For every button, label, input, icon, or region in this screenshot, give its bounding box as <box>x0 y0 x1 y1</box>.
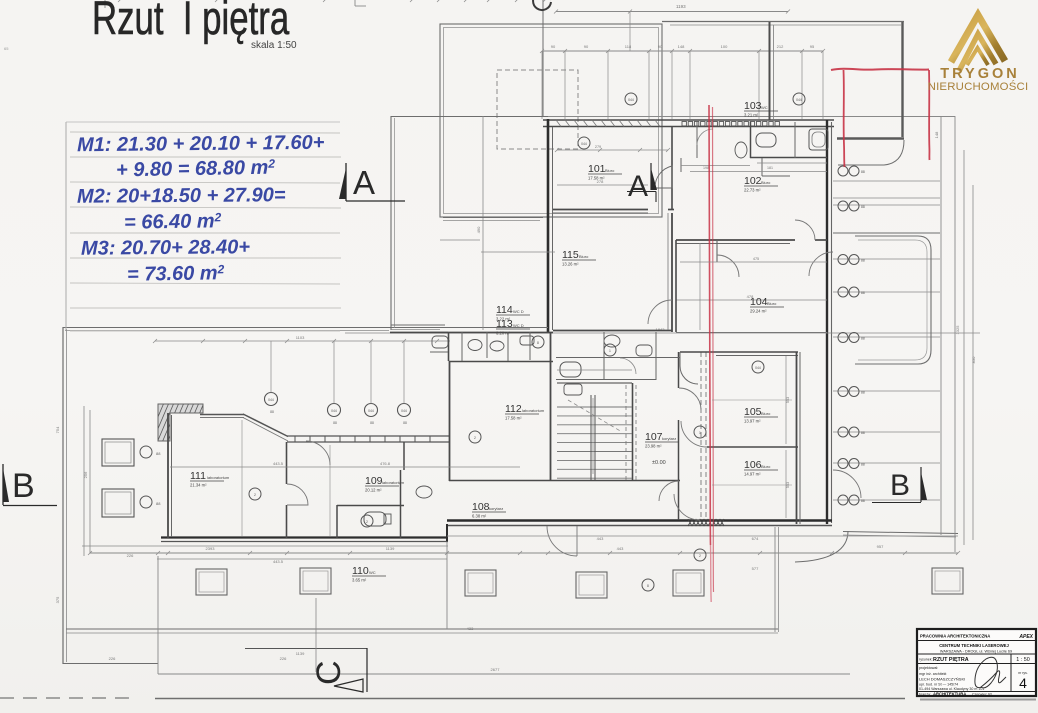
interior dim rows under top wall <box>557 149 668 151</box>
svg-text:rysunek:: rysunek: <box>919 658 933 662</box>
stair dashed cut <box>568 400 622 432</box>
west radiator box 2 <box>102 489 134 517</box>
room111 north wall horizontal <box>200 414 244 416</box>
main east wall <box>826 120 828 524</box>
door arc 101->core <box>655 166 672 188</box>
vertical dim line x483 <box>482 116 484 330</box>
circles beside boxes <box>140 446 152 458</box>
entrance door arc bottom wall <box>547 526 577 556</box>
red vertical division line <box>709 105 711 545</box>
bath zone partitions x462-553 <box>461 332 463 361</box>
horizontal connector y217 <box>443 217 543 219</box>
svg-text:upr. bud. nr St — 145/74: upr. bud. nr St — 145/74 <box>919 683 958 687</box>
svg-text:PRACOWNIA ARCHITEKTONICZNA: PRACOWNIA ARCHITEKTONICZNA <box>920 634 990 639</box>
svg-text:Czerwiec 93: Czerwiec 93 <box>972 693 992 697</box>
terrace top line y117 <box>391 116 548 118</box>
corridor 107 walls <box>678 352 680 388</box>
subtitle skala <box>251 40 297 51</box>
stairwell walls <box>557 382 632 384</box>
rooms 105/106 interior dims <box>785 356 787 444</box>
upper-right terrace east wall <box>901 22 903 137</box>
terrace west wall thin x392 <box>390 116 392 330</box>
outer chevron <box>951 15 1005 62</box>
rooms east wall x797 <box>796 352 798 524</box>
wall 109/110 region <box>403 442 405 470</box>
right boundary verticals <box>940 116 942 535</box>
washbasin 109 <box>416 486 432 498</box>
long dimension line y553 <box>90 552 958 554</box>
lab wing bottom wall <box>161 536 448 538</box>
room 104 interior dim <box>676 299 827 301</box>
svg-text:WARSZAWA - DROGL ul. Wšniej L: WARSZAWA - DROGL ul. Wšniej Lucile 69 <box>940 650 1012 654</box>
svg-text:mgr inż. architekt: mgr inż. architekt <box>919 672 946 676</box>
WC110 fixture <box>364 512 386 526</box>
dim line y333 long <box>345 332 980 334</box>
door arcs corridor <box>679 388 701 410</box>
core west wall x672 upper <box>671 127 673 160</box>
column squares <box>196 569 227 595</box>
svg-text:01-494 Warszawa ul. Klaudyny 3: 01-494 Warszawa ul. Klaudyny 30 m 101 <box>919 687 984 691</box>
upper-left block outline <box>440 24 662 217</box>
corridor window band lab wing <box>287 435 450 437</box>
middle chevron <box>959 34 996 71</box>
stair landing line <box>557 369 632 371</box>
svg-text:projektował:: projektował: <box>919 666 938 670</box>
glass block band in top wall <box>682 122 686 126</box>
west dim line <box>89 410 91 553</box>
wall 105/106 <box>707 446 798 448</box>
red rectangle <box>831 69 929 70</box>
svg-text:APEX: APEX <box>1018 634 1033 640</box>
handwritten M3 line1 <box>81 236 250 260</box>
bath zone sub-lines <box>680 158 682 172</box>
door arc 109 <box>306 441 330 465</box>
svg-text:branża:: branża: <box>919 693 931 697</box>
site boundary top horizontal <box>63 327 390 329</box>
svg-text:ARCHITEKTURA: ARCHITEKTURA <box>933 692 966 697</box>
svg-text:1 : 50: 1 : 50 <box>1016 657 1030 663</box>
room104 interior dims <box>699 243 701 330</box>
handwritten M2 line2 <box>124 210 222 234</box>
east wing circled symbols <box>838 166 848 176</box>
bath fixtures small <box>468 340 482 351</box>
svg-text:4: 4 <box>1019 675 1027 691</box>
inner chevron <box>967 48 988 65</box>
dashed terrace square <box>497 70 578 149</box>
line y116 right extension <box>832 116 955 118</box>
upper-right block divider x770 <box>769 22 771 120</box>
bath 103 walls <box>750 122 752 158</box>
below-wall parallel lines <box>447 535 958 537</box>
circled symbols row lab corridor <box>265 393 278 406</box>
title Rzut I pietra <box>92 0 289 45</box>
bath103 partition detail <box>761 158 763 176</box>
door arc 102->104 <box>795 220 815 240</box>
site boundary bottom horizontals <box>63 663 158 665</box>
stair treads <box>557 406 632 408</box>
svg-text:CENTRUM TECHNIKI LASEROWEJ: CENTRUM TECHNIKI LASEROWEJ <box>939 643 1009 648</box>
dim line y341 <box>155 340 450 342</box>
site boundary verticals mid <box>157 556 159 674</box>
top edge cut marks <box>104 0 106 8</box>
main slab top wall <box>543 116 834 118</box>
corridor diagonal wall <box>243 414 288 437</box>
top connector <box>629 11 631 51</box>
bath103 toilet <box>756 133 776 147</box>
main west wall <box>547 119 550 332</box>
east wing divider lines <box>833 180 940 182</box>
wall between 111 and 109 <box>286 442 288 484</box>
room 101 interior dim <box>557 184 648 186</box>
room105 top wall <box>680 351 798 353</box>
wall 102/104 y240 <box>676 239 795 241</box>
west radiator box 1 <box>102 439 134 466</box>
room 115 inner lines <box>553 330 672 332</box>
door arc 115 <box>648 300 672 324</box>
door arc east wing <box>833 470 861 498</box>
room 109 interior vertical dim <box>241 420 243 536</box>
dashed lines shaft <box>700 352 702 520</box>
main bottom wall <box>447 519 832 522</box>
handwritten M1 line2 <box>116 157 275 183</box>
top dimension chain y51 <box>542 50 823 52</box>
C section line top <box>542 0 544 117</box>
door/wall details near red line <box>676 332 827 334</box>
terrace kerb curve <box>838 140 904 165</box>
handwritten M2 line1 <box>77 184 286 208</box>
interior dims lab wing <box>170 466 520 468</box>
wall above 112 (bath zone) <box>448 332 450 361</box>
stair arrow <box>592 398 594 474</box>
door arcs 105 106 <box>681 421 707 447</box>
upper-right terrace bottom wall <box>837 137 904 140</box>
threshold crosshatch bottom <box>688 519 692 526</box>
door arc room 111 <box>287 484 308 505</box>
balcony rounded outline upper <box>855 236 931 364</box>
wall 104 south segment x676 <box>675 240 677 332</box>
window hatch left segment <box>556 120 561 127</box>
lab wing west wall <box>167 413 169 538</box>
core west wall x672 <box>671 160 673 209</box>
bath103 tub <box>809 129 828 150</box>
under titleblock smudge <box>920 699 1036 701</box>
left mid dim y240-252 <box>440 239 480 241</box>
upper-right block top edge <box>662 21 904 23</box>
scattered small circles plan <box>578 137 590 149</box>
bottom page edge <box>0 697 130 699</box>
handwritten M1 line1 <box>77 132 325 158</box>
C marker top (cut) <box>533 0 551 10</box>
site boundary left vertical <box>62 327 64 664</box>
room 112 walls <box>449 361 451 481</box>
signature <box>975 657 1006 688</box>
east wing top divider <box>833 232 940 234</box>
kerb curve bottom right <box>795 531 848 562</box>
svg-text:LECH DOMASZCZYŃSKI: LECH DOMASZCZYŃSKI <box>919 677 965 682</box>
small sink <box>735 142 747 158</box>
top dim verticals <box>541 51 543 119</box>
niche 105 top-left <box>680 352 698 384</box>
stair stringer <box>590 395 592 480</box>
niche room 104 <box>716 240 718 262</box>
handwritten M3 line2 <box>127 262 225 287</box>
room101 bottom wall <box>553 209 648 211</box>
top dim line 1193 <box>556 11 788 13</box>
bath row 113/114 fixtures <box>560 362 581 377</box>
svg-text:RZUT PIĘTRA: RZUT PIĘTRA <box>933 657 969 663</box>
